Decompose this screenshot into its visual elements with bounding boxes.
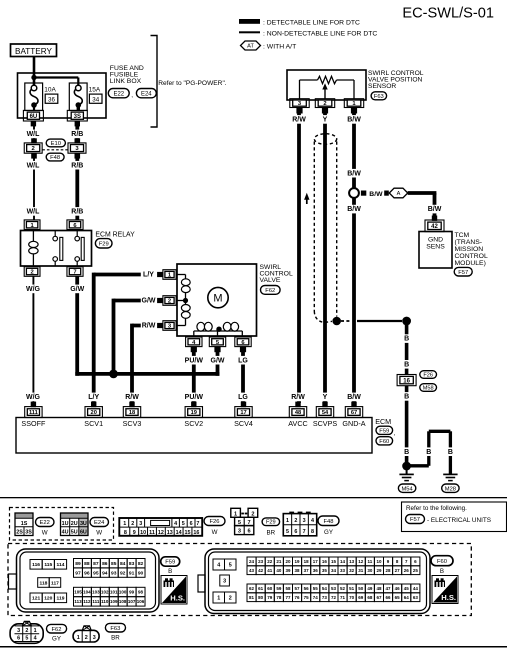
svg-text:12: 12	[358, 559, 364, 564]
svg-text:99: 99	[129, 590, 135, 595]
svg-text:F60: F60	[437, 559, 447, 565]
svg-text:BR: BR	[266, 530, 275, 537]
svg-text:ECM: ECM	[375, 417, 391, 426]
svg-text:119: 119	[57, 596, 65, 602]
wire fusible link 10A to 6U	[33, 105, 35, 110]
section divider	[0, 497, 507, 498]
svg-text:F29: F29	[266, 520, 276, 526]
svg-text:R/W: R/W	[125, 394, 139, 401]
svg-text:103: 103	[92, 590, 100, 595]
svg-text:53: 53	[331, 586, 337, 591]
wire G/W horizontal bus	[75, 372, 219, 376]
svg-text:78: 78	[276, 595, 282, 600]
connector E22 cells	[15, 513, 33, 518]
svg-text:12: 12	[158, 530, 164, 536]
svg-text:101: 101	[110, 590, 118, 595]
svg-text:116: 116	[32, 562, 40, 568]
svg-text:77: 77	[285, 595, 291, 600]
svg-text:E22: E22	[113, 91, 124, 97]
svg-text:B: B	[448, 449, 453, 456]
wire LG valve pin 6 to ECM SCV4	[241, 352, 245, 403]
svg-text:R/W: R/W	[291, 394, 305, 401]
svg-text:114: 114	[57, 562, 65, 568]
legend detectable line	[239, 19, 260, 24]
svg-text:1: 1	[77, 635, 80, 641]
svg-text:1U: 1U	[62, 521, 69, 527]
svg-text:54: 54	[322, 410, 329, 416]
arrow direction marker	[306, 198, 308, 204]
svg-text:PU/W: PU/W	[185, 394, 204, 401]
svg-text:18: 18	[304, 559, 310, 564]
ECM pin 17 SCV4	[241, 402, 246, 408]
svg-text:F62: F62	[52, 627, 62, 633]
svg-text:48: 48	[295, 410, 301, 416]
svg-text:25: 25	[413, 568, 419, 573]
svg-text:72: 72	[331, 595, 337, 600]
node ground junction	[402, 462, 411, 471]
connector F26 cells	[119, 518, 202, 536]
ECM pin 48 AVCC	[295, 402, 300, 408]
connector 16 F26/M58	[397, 375, 416, 386]
svg-text:76: 76	[295, 595, 301, 600]
svg-text:75: 75	[304, 595, 310, 600]
svg-text:110: 110	[101, 599, 109, 604]
svg-text:28: 28	[386, 568, 392, 573]
H.S. emblem F60	[432, 576, 458, 604]
label B	[426, 447, 432, 456]
label PU/W	[184, 393, 204, 402]
valve pin 1	[157, 272, 163, 277]
svg-text:F26: F26	[210, 519, 220, 525]
sensor pin 2	[315, 99, 334, 108]
label B	[403, 360, 409, 369]
svg-text:1: 1	[123, 521, 126, 527]
svg-text:82: 82	[138, 561, 144, 567]
svg-text:70: 70	[349, 595, 355, 600]
valve internal coil 2	[185, 301, 187, 326]
svg-text:R/B: R/B	[71, 162, 83, 169]
svg-text:14: 14	[176, 530, 182, 536]
svg-text:W: W	[42, 530, 48, 537]
svg-text:20: 20	[285, 559, 291, 564]
svg-text:SCVPS: SCVPS	[313, 419, 338, 428]
ECM relay contact b	[76, 231, 78, 237]
connector label F60	[431, 556, 453, 566]
ground label M54	[398, 484, 415, 492]
page bottom rule	[0, 646, 507, 648]
label R/B	[70, 161, 85, 170]
svg-text:48: 48	[376, 586, 382, 591]
ECM relay coil	[32, 231, 34, 242]
connector label E24	[90, 518, 109, 527]
svg-text:M28: M28	[445, 486, 456, 492]
ground M54	[406, 466, 408, 474]
svg-text:GND: GND	[428, 236, 443, 243]
svg-text:89: 89	[75, 561, 81, 567]
svg-text:80: 80	[258, 595, 264, 600]
svg-text:1S: 1S	[21, 521, 28, 527]
connector F59 body	[17, 549, 160, 612]
svg-text:W/G: W/G	[26, 394, 41, 401]
svg-text:F59: F59	[379, 428, 389, 434]
svg-text:6: 6	[17, 636, 20, 642]
connector label F26	[204, 517, 225, 526]
svg-text:A: A	[397, 191, 401, 197]
svg-text:91: 91	[129, 570, 135, 576]
svg-text:ECM RELAY: ECM RELAY	[95, 231, 135, 238]
connector E24 cells	[61, 513, 89, 518]
svg-text:117: 117	[51, 580, 59, 586]
svg-text:93: 93	[111, 570, 117, 576]
svg-text:1: 1	[286, 518, 289, 524]
svg-text:121: 121	[32, 596, 40, 602]
wire battery to fuse box	[33, 57, 36, 86]
svg-text:2: 2	[294, 518, 297, 524]
svg-text:16: 16	[322, 559, 328, 564]
legend non-detectable line	[239, 31, 260, 33]
svg-text:F48: F48	[324, 519, 334, 525]
label R/W	[124, 393, 139, 402]
wire connector junction dashed	[42, 149, 68, 151]
svg-text:(TRANS-: (TRANS-	[455, 239, 483, 246]
connector 3 E10/F48	[75, 138, 81, 143]
label B	[403, 447, 409, 456]
sensor potentiometer	[299, 80, 301, 99]
svg-text:24: 24	[249, 559, 255, 564]
svg-text:55: 55	[313, 586, 319, 591]
svg-text:2: 2	[85, 635, 88, 641]
label G/W	[141, 296, 156, 305]
svg-text:5: 5	[286, 529, 289, 535]
svg-text:8: 8	[311, 529, 314, 535]
svg-text:R/W: R/W	[292, 117, 306, 124]
svg-text:L/Y: L/Y	[88, 394, 99, 401]
fusible link 10A 36	[25, 83, 43, 111]
svg-text:111: 111	[92, 599, 100, 604]
svg-text:F59: F59	[165, 560, 175, 566]
svg-text:W/L: W/L	[27, 209, 41, 216]
svg-text:32: 32	[349, 568, 355, 573]
svg-text:98: 98	[138, 590, 144, 595]
valve pin 4	[186, 337, 202, 347]
dashed group box E22 E24	[10, 508, 114, 541]
svg-text:E22: E22	[40, 520, 50, 526]
svg-text:94: 94	[102, 570, 108, 576]
svg-text:1: 1	[217, 595, 220, 601]
connector F29 cells	[231, 508, 241, 517]
connector label F48	[318, 516, 339, 526]
svg-text:13: 13	[167, 530, 173, 536]
svg-text:62: 62	[249, 586, 255, 591]
battery	[11, 44, 57, 57]
valve pin 3	[157, 323, 163, 328]
svg-text:21: 21	[276, 559, 282, 564]
svg-text:SCV4: SCV4	[234, 419, 253, 428]
svg-text:B/W: B/W	[347, 117, 361, 124]
svg-text:66: 66	[386, 595, 392, 600]
svg-text:3: 3	[238, 529, 241, 535]
svg-text:86: 86	[102, 561, 108, 567]
svg-text:17: 17	[240, 410, 246, 416]
valve stepper coils	[194, 330, 243, 332]
svg-text:LINK BOX: LINK BOX	[110, 78, 142, 85]
svg-text:57: 57	[295, 586, 301, 591]
label L/Y	[141, 270, 156, 279]
label L/Y	[86, 393, 101, 402]
legend AT symbol	[241, 41, 261, 50]
svg-text:35: 35	[322, 568, 328, 573]
svg-text:F63: F63	[374, 94, 384, 100]
svg-text:: NON-DETECTABLE LINE FOR DTC: : NON-DETECTABLE LINE FOR DTC	[263, 31, 377, 38]
svg-text:27: 27	[395, 568, 401, 573]
svg-text:B/W: B/W	[347, 170, 361, 177]
hexagon A with A/T	[389, 188, 408, 198]
connector label F59	[376, 426, 393, 434]
svg-text:2U: 2U	[71, 521, 78, 527]
svg-text:B: B	[440, 568, 444, 575]
wire R/W valve pin 3 to ECM SCV3	[132, 324, 154, 328]
ECM relay pin 6	[67, 220, 83, 230]
svg-text:7: 7	[196, 521, 199, 527]
svg-text:F60: F60	[379, 439, 389, 445]
svg-text:106: 106	[137, 599, 145, 604]
connector 3S	[67, 110, 87, 121]
svg-text:41: 41	[267, 568, 273, 573]
svg-text:118: 118	[40, 580, 48, 586]
svg-text:64: 64	[404, 595, 410, 600]
svg-text:22: 22	[267, 559, 273, 564]
svg-text:9: 9	[133, 530, 136, 536]
wire PU/W valve pin 4 to ECM SCV2	[192, 352, 196, 403]
svg-text:4: 4	[174, 521, 177, 527]
svg-text:GY: GY	[324, 529, 333, 536]
connector label F59	[161, 557, 180, 566]
svg-text:115: 115	[44, 562, 52, 568]
node ground bus junction	[402, 317, 411, 326]
svg-text:M58: M58	[423, 386, 434, 392]
svg-text:39: 39	[285, 568, 291, 573]
svg-text:B: B	[168, 568, 172, 575]
label B/W	[346, 169, 361, 178]
svg-text:36: 36	[48, 96, 55, 103]
wire battery feed to fusible link 15A	[34, 76, 78, 78]
svg-text:R/B: R/B	[71, 209, 83, 216]
connector 6U	[23, 110, 43, 121]
svg-text:AVCC: AVCC	[288, 419, 307, 428]
wire R/W sensor pin 3 to ECM AVCC	[297, 114, 301, 404]
node battery feed junction	[31, 75, 36, 80]
sensor pin 3	[290, 99, 309, 108]
svg-text:63: 63	[413, 595, 419, 600]
label PU/W	[184, 356, 204, 365]
svg-text:84: 84	[120, 561, 126, 567]
svg-text:43: 43	[249, 568, 255, 573]
svg-text:2: 2	[168, 299, 171, 305]
svg-text:87: 87	[93, 561, 99, 567]
svg-text:73: 73	[322, 595, 328, 600]
connector label F63	[105, 623, 125, 632]
svg-text:E24: E24	[94, 520, 105, 526]
svg-text:AT: AT	[247, 44, 254, 50]
wire W/L 6U to connector 2	[33, 121, 35, 143]
svg-text:MISSION: MISSION	[455, 246, 484, 253]
label LG	[238, 356, 249, 365]
label LG	[238, 393, 249, 402]
label W/G	[25, 393, 40, 402]
svg-text:47: 47	[386, 586, 392, 591]
svg-text:PU/W: PU/W	[185, 357, 204, 364]
valve internal coil 1	[177, 274, 186, 276]
svg-text:60: 60	[267, 586, 273, 591]
node valve stepper tap	[216, 327, 221, 332]
svg-text:GY: GY	[52, 636, 61, 643]
svg-text:BR: BR	[111, 635, 120, 642]
label B/W	[427, 205, 442, 214]
svg-text:- ELECTRICAL UNITS: - ELECTRICAL UNITS	[427, 517, 491, 524]
svg-text:W: W	[96, 530, 102, 537]
svg-text:2: 2	[25, 628, 28, 634]
fusible link 15A 34	[69, 83, 87, 111]
connector label E22	[108, 89, 129, 98]
label R/B	[70, 207, 85, 216]
wire R/B connector 3 to ECM relay pin 6	[75, 153, 79, 220]
connector F48 cells	[289, 512, 294, 514]
svg-text:10: 10	[376, 559, 382, 564]
connector 2 E10/F48	[31, 138, 37, 143]
swirl control valve F62 box	[177, 264, 257, 336]
svg-text:B: B	[404, 361, 409, 368]
svg-text:31: 31	[358, 568, 364, 573]
svg-text:Refer to "PG-POWER".: Refer to "PG-POWER".	[158, 80, 227, 87]
svg-text:11: 11	[149, 530, 155, 536]
ECM pin 111 SSOFF	[31, 402, 36, 408]
svg-text:26: 26	[404, 568, 410, 573]
svg-text:111: 111	[29, 410, 38, 416]
svg-text:F63: F63	[110, 626, 120, 632]
connector label F26	[420, 371, 437, 379]
svg-text:81: 81	[249, 595, 255, 600]
connector label E22	[36, 518, 55, 527]
label B/W	[346, 205, 361, 214]
splice joint on B/W	[349, 188, 359, 198]
svg-text:2S: 2S	[16, 530, 23, 536]
svg-text:67: 67	[376, 595, 382, 600]
svg-text:85: 85	[111, 561, 117, 567]
svg-text:CONTROL: CONTROL	[455, 253, 488, 260]
connector label F57	[406, 515, 425, 524]
ECM relay F29 box	[21, 231, 92, 267]
wire B branch to ground M28	[407, 464, 429, 467]
svg-text:3S: 3S	[74, 114, 81, 120]
svg-text:59: 59	[276, 586, 282, 591]
svg-text:79: 79	[267, 595, 273, 600]
svg-text:19: 19	[295, 559, 301, 564]
label Y	[322, 393, 328, 402]
svg-text:16: 16	[403, 378, 410, 384]
svg-text:68: 68	[367, 595, 373, 600]
svg-text:20: 20	[91, 410, 97, 416]
svg-text:42: 42	[258, 568, 264, 573]
svg-text:74: 74	[313, 595, 319, 600]
svg-text:109: 109	[110, 599, 118, 604]
svg-text:EC-SWL/S-01: EC-SWL/S-01	[402, 6, 494, 22]
svg-text:H.S.: H.S.	[441, 593, 456, 602]
svg-text:G/W: G/W	[142, 298, 156, 305]
valve pin 5	[209, 337, 225, 347]
svg-text:15A: 15A	[89, 86, 101, 93]
connector label E10	[46, 139, 65, 147]
label R/W	[290, 393, 305, 402]
svg-text:2: 2	[229, 595, 232, 601]
dashed group box ECM connectors	[8, 544, 471, 616]
wire G/W riser to valve pin 5	[216, 352, 220, 376]
ECM relay contact a	[54, 231, 56, 237]
wire Y sensor pin 2 to ECM SCVPS	[323, 114, 327, 404]
wire A to TCM pin 42	[408, 191, 437, 195]
svg-text:3: 3	[303, 518, 306, 524]
svg-text:F57: F57	[458, 270, 468, 276]
svg-text:5: 5	[182, 521, 185, 527]
svg-text:H.S.: H.S.	[170, 594, 185, 603]
wire fusible link 15A to 3S	[77, 105, 80, 110]
svg-text:E10: E10	[51, 141, 61, 147]
svg-text:102: 102	[101, 590, 109, 595]
svg-text:16: 16	[193, 530, 199, 536]
svg-text:L/Y: L/Y	[143, 272, 154, 279]
label G/W	[210, 356, 225, 365]
svg-text:2: 2	[323, 101, 326, 107]
svg-text:69: 69	[358, 595, 364, 600]
svg-text:97: 97	[75, 570, 81, 576]
svg-text:G/W: G/W	[70, 286, 84, 293]
svg-text:51: 51	[349, 586, 355, 591]
svg-text:8: 8	[124, 530, 127, 536]
label B	[403, 392, 409, 401]
svg-text:112: 112	[83, 599, 91, 604]
svg-text:F62: F62	[265, 288, 275, 294]
connector label F29	[95, 239, 112, 248]
svg-text:MODULE): MODULE)	[455, 260, 486, 267]
svg-text:F57: F57	[410, 517, 420, 523]
connector F59 cells right	[74, 559, 83, 568]
svg-text:VALVE: VALVE	[260, 277, 281, 284]
svg-text:6U: 6U	[80, 530, 87, 536]
svg-text:37: 37	[304, 568, 310, 573]
motor M	[208, 287, 228, 307]
svg-text:15: 15	[331, 559, 337, 564]
connector label F62	[47, 624, 67, 633]
svg-text:30: 30	[367, 568, 373, 573]
svg-text:F26: F26	[423, 373, 433, 379]
svg-text:4U: 4U	[62, 530, 69, 536]
TCM box	[419, 232, 452, 269]
wire B junction to connector 16	[405, 321, 409, 375]
svg-text:104: 104	[83, 590, 91, 595]
svg-text:Y: Y	[323, 394, 328, 401]
svg-text:W: W	[212, 529, 218, 536]
svg-text:29: 29	[376, 568, 382, 573]
svg-text:B/W: B/W	[369, 191, 383, 198]
svg-text:E24: E24	[141, 91, 152, 97]
node G/W junction	[109, 370, 118, 379]
svg-text:SENSOR: SENSOR	[368, 83, 396, 90]
svg-text:B: B	[404, 449, 409, 456]
wire R/B 3S to connector 3	[75, 121, 79, 143]
svg-text:18: 18	[129, 410, 135, 416]
svg-text:2: 2	[251, 511, 254, 517]
label R/W	[141, 321, 156, 330]
connector label F57	[454, 267, 472, 276]
